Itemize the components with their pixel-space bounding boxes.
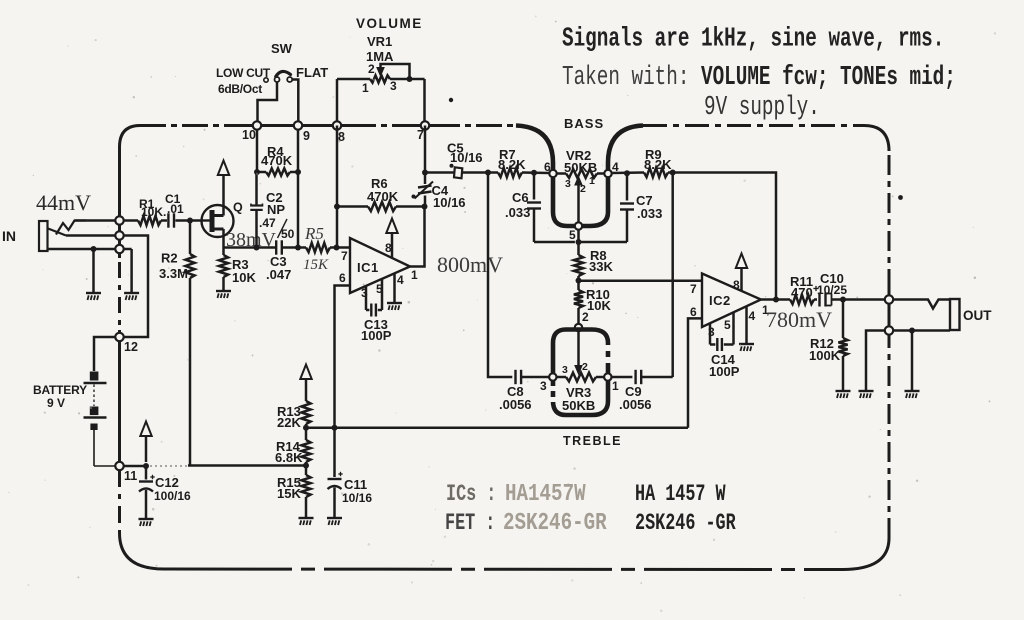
wire C9 to R9 junction vertical	[671, 173, 674, 378]
junction R12 top	[840, 297, 846, 303]
svg-text:IN: IN	[2, 228, 16, 244]
capacitor C6	[527, 173, 575, 242]
svg-text:50KB: 50KB	[562, 398, 595, 413]
resistor R5	[306, 243, 330, 252]
svg-text:22K: 22K	[277, 415, 301, 430]
ground	[216, 290, 231, 292]
node jack tip pin	[115, 216, 123, 224]
resistor R6	[334, 204, 340, 210]
wire to IC2 pin7	[579, 280, 703, 283]
node 8	[333, 121, 341, 129]
svg-text:6: 6	[690, 305, 697, 319]
svg-text:HA 1457 W: HA 1457 W	[635, 482, 726, 508]
capacitor C4 electrolytic	[418, 192, 432, 194]
svg-text:R2: R2	[161, 251, 178, 266]
svg-text:6.8K: 6.8K	[275, 450, 303, 465]
svg-text:3: 3	[540, 379, 547, 393]
wire output ground right	[911, 331, 914, 391]
PCB boundary dash-dot border	[120, 126, 890, 570]
potentiometer VR2 bass 50KB	[516, 126, 643, 227]
wire jack tip to R1	[75, 219, 139, 222]
node OUT sleeve pin	[885, 326, 893, 334]
resistor R13	[301, 401, 310, 424]
svg-text:4: 4	[749, 309, 756, 323]
svg-text:50: 50	[281, 227, 295, 241]
node 5	[575, 222, 582, 229]
junction C11 rail	[332, 425, 338, 431]
ground	[299, 517, 314, 519]
capacitor C7	[579, 170, 635, 242]
ground	[327, 517, 342, 519]
svg-text:1: 1	[411, 268, 418, 282]
svg-text:SW: SW	[271, 41, 293, 56]
capacitor C8	[514, 370, 516, 384]
svg-text:2: 2	[582, 310, 589, 324]
resistor R2	[189, 221, 192, 255]
svg-text:7: 7	[690, 282, 697, 296]
wire IC1 output	[410, 207, 425, 267]
svg-text:ICs :: ICs :	[446, 482, 496, 508]
capacitor C1	[161, 219, 167, 222]
wire R2 bottom to bias divider	[188, 464, 306, 467]
svg-text:FLAT: FLAT	[296, 65, 328, 80]
resistor R3	[222, 248, 225, 256]
node jack sleeve pin	[115, 245, 123, 253]
ground	[124, 292, 139, 294]
resistor R11	[776, 298, 790, 301]
node jack ring pin	[115, 231, 123, 239]
supply arrow IC2 pin 8	[740, 269, 743, 292]
resistor R9	[612, 171, 644, 174]
svg-text:FET :: FET :	[445, 511, 495, 537]
capacitor C3	[275, 240, 277, 254]
ground	[836, 390, 851, 392]
resistor R10	[577, 281, 580, 291]
svg-text:.033: .033	[637, 206, 662, 221]
stray ink dot	[898, 195, 903, 200]
svg-text:470K: 470K	[261, 153, 293, 168]
svg-text:2SK246 -GR: 2SK246 -GR	[635, 511, 736, 537]
svg-text:9: 9	[303, 129, 310, 143]
svg-text:VR1: VR1	[367, 34, 392, 49]
supply arrow FET drain	[222, 176, 225, 216]
svg-text:100P: 100P	[709, 364, 740, 379]
junction R9 right	[670, 170, 676, 176]
svg-text:1: 1	[362, 81, 369, 95]
svg-text:5: 5	[724, 318, 731, 332]
svg-text:C11: C11	[344, 477, 367, 492]
svg-text:10K: 10K	[232, 270, 256, 285]
svg-text:15K: 15K	[303, 257, 329, 273]
wire FET source down	[222, 229, 225, 248]
svg-text:470K: 470K	[367, 189, 399, 204]
svg-text:2SK246-GR: 2SK246-GR	[503, 509, 607, 537]
capacitor C10 electrolytic	[813, 286, 884, 307]
svg-text:3: 3	[708, 325, 715, 339]
svg-text:3: 3	[565, 178, 571, 190]
wire feedback to R9	[673, 173, 776, 300]
svg-text:11: 11	[124, 469, 137, 483]
junction R14 R15	[303, 463, 309, 469]
node 6	[549, 170, 556, 177]
wire node8 vertical	[336, 126, 339, 248]
svg-text:TREBLE: TREBLE	[563, 434, 622, 448]
supply arrow R13	[305, 380, 308, 402]
svg-text:100/16: 100/16	[154, 489, 191, 503]
node 3 treble	[549, 373, 556, 380]
wire IC1 pin6 to bias rail	[335, 286, 351, 429]
svg-text:470: 470	[791, 285, 813, 300]
svg-text:5: 5	[569, 228, 576, 242]
op-amp IC2	[702, 274, 761, 328]
svg-text:3: 3	[390, 79, 397, 93]
ground	[905, 390, 920, 392]
resistor R8	[574, 255, 583, 276]
svg-text:2: 2	[582, 361, 588, 373]
wire bias dotted link	[150, 465, 188, 467]
svg-text:BATTERY: BATTERY	[33, 383, 87, 397]
potentiometer VR3 treble 50KB	[553, 330, 608, 416]
svg-text:7: 7	[417, 128, 424, 142]
capacitor C5 electrolytic	[425, 164, 488, 179]
junction bass bottom	[576, 239, 582, 245]
svg-text:2: 2	[580, 183, 586, 195]
potentiometer VR1	[337, 64, 425, 122]
wire node9 vertical	[297, 126, 300, 248]
junction C12 top	[143, 463, 149, 469]
svg-text:9 V: 9 V	[47, 396, 65, 410]
svg-text:9V supply.: 9V supply.	[704, 92, 820, 123]
transistor Q FET 2SK246	[201, 205, 234, 237]
svg-text:5: 5	[376, 282, 383, 296]
svg-text:3: 3	[361, 286, 368, 300]
svg-text:10/16: 10/16	[342, 491, 372, 505]
svg-text:100P: 100P	[361, 328, 392, 343]
svg-text:10K.: 10K.	[141, 205, 166, 219]
svg-text:6: 6	[544, 160, 551, 174]
wire node5 stem	[577, 230, 580, 255]
switch SW	[258, 71, 299, 121]
resistor R12	[842, 300, 845, 339]
svg-text:12: 12	[124, 340, 138, 354]
svg-text:.47: .47	[259, 216, 276, 230]
svg-text:.047: .047	[266, 267, 291, 282]
resistor R7	[488, 171, 498, 174]
wire source line	[224, 246, 276, 249]
svg-text:.0056: .0056	[499, 397, 532, 412]
supply arrow IC1 pin 8	[391, 233, 394, 258]
svg-text:Q: Q	[233, 201, 243, 215]
wire treble row left	[488, 173, 512, 378]
svg-text:BASS: BASS	[564, 116, 604, 131]
ground	[859, 390, 874, 392]
node 9	[294, 121, 302, 129]
battery BT1 9V	[84, 337, 116, 466]
svg-text:C6: C6	[512, 190, 529, 205]
capacitor C11 electrolytic	[328, 428, 343, 517]
capacitor C2 nonpolar	[250, 172, 262, 248]
svg-text:.0056: .0056	[619, 397, 652, 412]
node 12	[115, 333, 123, 341]
op-amp IC1	[350, 238, 410, 293]
svg-text:4: 4	[397, 273, 404, 287]
wire IC1 pin4 ground	[393, 274, 396, 303]
svg-text:780mV: 780mV	[766, 307, 832, 332]
wire IC2 pin4 ground	[745, 307, 748, 344]
junction C2 bottom	[254, 245, 260, 251]
svg-text:33K: 33K	[589, 259, 613, 274]
svg-text:800mV: 800mV	[437, 252, 503, 277]
junction C5 branch	[422, 170, 428, 176]
svg-text:NP: NP	[267, 202, 285, 217]
svg-text:IC1: IC1	[357, 260, 379, 275]
wire sleeve ground stub	[92, 249, 95, 292]
svg-text:2: 2	[368, 62, 375, 76]
svg-text:C12: C12	[155, 475, 179, 490]
resistor R1	[138, 216, 161, 225]
svg-text:OUT: OUT	[963, 308, 992, 323]
svg-text:.033: .033	[505, 205, 530, 220]
resistor R4	[254, 169, 260, 175]
svg-text:.01: .01	[167, 202, 184, 216]
ground	[139, 518, 154, 520]
svg-text:7: 7	[341, 249, 348, 263]
svg-text:3.3M: 3.3M	[159, 266, 188, 281]
svg-text:8.2K: 8.2K	[498, 157, 526, 172]
supply arrow C12	[145, 437, 148, 463]
svg-text:10/16: 10/16	[450, 150, 483, 165]
wire node7 vertical	[424, 126, 427, 185]
wire IC2 pin6 to bias rail	[688, 318, 702, 427]
junction output	[773, 297, 779, 303]
ground	[739, 343, 754, 345]
wire node11 to C12	[124, 465, 146, 468]
wire sleeve pin ground stub	[130, 249, 133, 292]
node 1 treble	[604, 373, 611, 380]
svg-text:8: 8	[385, 241, 392, 255]
svg-text:10: 10	[242, 128, 256, 142]
svg-text:8.2K: 8.2K	[644, 157, 672, 172]
svg-text:50KB: 50KB	[564, 160, 597, 175]
junction node9 bottom	[295, 245, 301, 251]
svg-text:VOLUME: VOLUME	[356, 16, 423, 31]
svg-text:VOLUME fcw; TONEs mid;: VOLUME fcw; TONEs mid;	[701, 62, 956, 93]
junction output ground right	[909, 328, 915, 334]
svg-text:Signals are 1kHz, sine wave, r: Signals are 1kHz, sine wave, rms.	[562, 24, 944, 55]
svg-text:8: 8	[733, 278, 740, 292]
junction treble branch	[485, 170, 491, 176]
stray ink dot	[449, 98, 453, 102]
resistor R14	[305, 428, 308, 440]
junction node8 bottom	[334, 245, 340, 251]
junction gate node	[187, 218, 193, 224]
ground	[86, 292, 101, 294]
svg-text:6: 6	[339, 271, 346, 285]
jack IN	[39, 221, 86, 252]
svg-text:IC2: IC2	[709, 293, 731, 308]
node 7	[421, 121, 429, 129]
svg-text:10/25: 10/25	[817, 283, 847, 297]
node 11	[115, 462, 123, 470]
svg-text:3: 3	[562, 364, 568, 376]
wire IC2 output	[761, 298, 776, 301]
resistor R15	[305, 466, 308, 476]
svg-text:1: 1	[589, 175, 595, 187]
svg-text:Taken with:: Taken with:	[562, 62, 689, 93]
wire output ground left	[866, 331, 885, 391]
jack OUT	[893, 299, 959, 331]
junction R13 R14	[303, 425, 309, 431]
svg-text:6dB/Oct: 6dB/Oct	[218, 82, 262, 96]
svg-text:10K: 10K	[587, 298, 611, 313]
junction sleeve ground	[91, 246, 97, 252]
svg-text:10/16: 10/16	[433, 195, 466, 210]
svg-text:LOW CUT: LOW CUT	[216, 66, 271, 80]
wire jack ring to power switch line	[66, 236, 148, 338]
node 10	[253, 121, 261, 129]
svg-text:HA1457W: HA1457W	[505, 480, 586, 508]
svg-text:15K: 15K	[277, 486, 301, 501]
ground	[387, 302, 402, 304]
junction C6 top	[531, 170, 537, 176]
node OUT tip pin	[885, 295, 893, 303]
wire node10 vertical	[256, 126, 259, 173]
node 4	[604, 170, 611, 177]
svg-text:1: 1	[612, 379, 619, 393]
capacitor C9	[612, 376, 633, 379]
svg-text:R5: R5	[304, 224, 324, 243]
svg-text:100K: 100K	[809, 348, 841, 363]
node 2 treble	[575, 324, 582, 331]
wire jack sleeve	[47, 248, 132, 251]
capacitor C12 electrolytic	[139, 466, 155, 518]
junction IC2 input branch	[576, 278, 582, 284]
capacitor C14	[710, 313, 734, 352]
bias rail wire	[306, 426, 688, 429]
capacitor C13	[366, 278, 382, 316]
svg-text:44mV: 44mV	[36, 190, 91, 215]
